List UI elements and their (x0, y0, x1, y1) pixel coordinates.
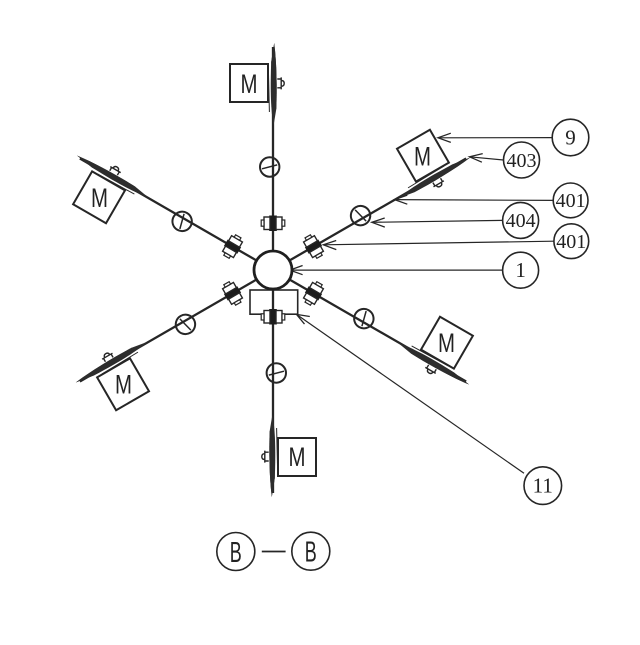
arrowhead on upper leader 401 (395, 195, 408, 204)
wire: leader line to label 404 (372, 220, 503, 222)
central hub circle (item 1) (254, 251, 292, 289)
arm assembly upper-right (motor M, blade, coupling) (252, 119, 476, 280)
svg-text:M: M (115, 370, 132, 400)
svg-text:B: B (305, 537, 317, 569)
section marker circle B right (292, 532, 330, 570)
distributor housing rectangle (item 11) (250, 290, 298, 314)
section marker circle B left (217, 533, 255, 571)
wire: leader line to label 11 (297, 314, 525, 473)
arrowhead on leader 1 (290, 266, 303, 275)
svg-text:401: 401 (556, 231, 586, 253)
callout balloon lower 401 (554, 224, 589, 259)
callout balloon upper 401 (553, 183, 588, 218)
arrowhead on lower leader 401 (323, 241, 336, 250)
arm assembly lower-right (motor M, blade, coupling) (267, 233, 491, 394)
svg-text:M: M (241, 69, 258, 99)
wire: leader line to label 403 (470, 157, 504, 160)
arm assembly top (motor M, blade, coupling) (230, 43, 285, 270)
svg-text:11: 11 (533, 474, 553, 498)
wire: dash between section marker circles (262, 551, 286, 553)
callout balloon 11 (524, 467, 562, 505)
arm assembly lower-left (motor M, blade, coupling) (71, 260, 295, 421)
svg-text:M: M (91, 183, 108, 213)
callout balloon 9 (552, 119, 589, 156)
svg-text:M: M (289, 442, 306, 472)
arrowhead on leader 403 (470, 154, 483, 163)
arrowhead on leader 9 (438, 133, 451, 142)
arrowhead on leader 404 (372, 218, 385, 227)
svg-text:M: M (438, 328, 455, 358)
svg-text:401: 401 (556, 190, 586, 212)
svg-text:9: 9 (565, 126, 576, 150)
svg-text:404: 404 (506, 210, 536, 232)
arm assembly bottom (motor M, blade, coupling) (261, 270, 316, 497)
svg-text:M: M (414, 142, 431, 172)
svg-text:1: 1 (515, 258, 526, 282)
callout balloon 403 (504, 142, 540, 178)
callout balloon 404 (503, 202, 539, 238)
callout balloon 1 (503, 252, 539, 288)
wire: leader line to lower label 401 (323, 241, 553, 245)
arm assembly upper-left (motor M, blade, coupling) (55, 146, 279, 307)
wire: leader line to label 9 (438, 137, 552, 139)
arrowhead on leader 11 (297, 314, 310, 324)
wire: leader line to upper label 401 (395, 199, 554, 202)
svg-text:B: B (230, 537, 242, 569)
wire: leader line to label 1 (290, 269, 503, 271)
svg-text:403: 403 (507, 150, 537, 172)
